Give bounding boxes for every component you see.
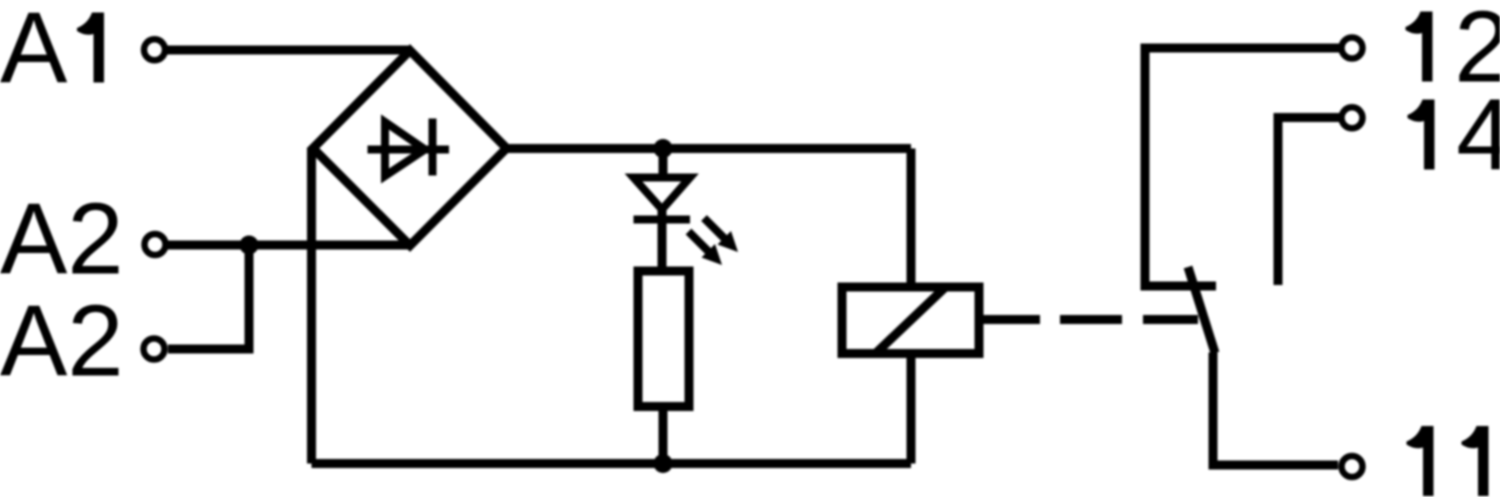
svg-text:4: 4: [1456, 80, 1500, 192]
svg-text:A2: A2: [0, 286, 124, 398]
svg-text:A: A: [0, 0, 68, 105]
svg-text:A2: A2: [0, 184, 124, 296]
